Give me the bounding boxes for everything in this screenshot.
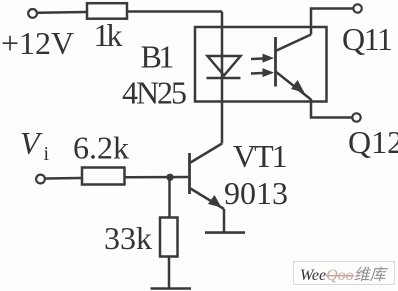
svg-text:Q11: Q11 xyxy=(342,21,392,57)
svg-text:1k: 1k xyxy=(94,17,123,53)
svg-text:33k: 33k xyxy=(104,220,152,256)
svg-text:+12V: +12V xyxy=(1,25,74,61)
svg-text:i: i xyxy=(44,143,50,165)
svg-text:4N25: 4N25 xyxy=(122,75,187,111)
svg-text:9013: 9013 xyxy=(224,175,288,211)
svg-text:WeeQoo维库: WeeQoo维库 xyxy=(300,266,389,284)
svg-text:B1: B1 xyxy=(141,39,174,75)
svg-text:V: V xyxy=(20,125,43,161)
svg-text:6.2k: 6.2k xyxy=(73,130,129,166)
svg-text:Q12: Q12 xyxy=(348,124,398,160)
svg-text:VT1: VT1 xyxy=(233,138,287,174)
